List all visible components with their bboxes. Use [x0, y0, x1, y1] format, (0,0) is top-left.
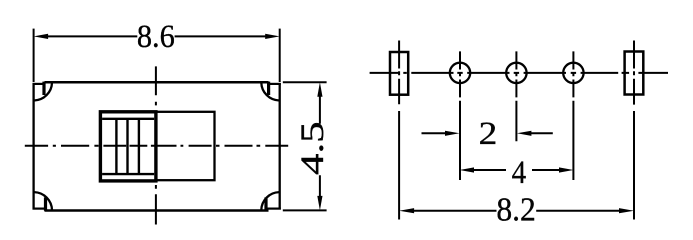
right pad rectangle	[625, 52, 644, 95]
corner arc top-right	[261, 83, 279, 101]
horizontal center line of right view	[370, 72, 668, 74]
body top-right corner step	[268, 83, 281, 85]
dim 2 left arrow line	[422, 132, 448, 134]
svg-text:2: 2	[479, 115, 498, 152]
body left edge	[32, 83, 34, 210]
svg-text:8.2: 8.2	[496, 191, 536, 228]
knob rib 3	[138, 119, 140, 174]
corner arc top-left	[34, 83, 52, 101]
body bottom-right corner step	[268, 208, 281, 210]
circle 3 center line	[572, 51, 574, 180]
dim 8.2 arrow right	[619, 208, 634, 213]
body top-left corner step	[33, 83, 45, 85]
dim 4.5 extension line top	[283, 81, 327, 83]
dim 8.6 extension line right	[279, 29, 281, 82]
knob inner bottom line	[102, 173, 154, 175]
svg-text:8.6: 8.6	[137, 18, 175, 54]
slot opening rectangle	[156, 112, 215, 180]
dim 4 dimension line	[472, 169, 561, 171]
body right edge	[279, 83, 281, 210]
terminal circle 3	[563, 63, 583, 83]
dim 8.2 extension line right	[633, 111, 635, 220]
dim 4.5 arrow top	[317, 82, 322, 97]
svg-text:4.5: 4.5	[295, 121, 331, 175]
body bottom edge	[45, 209, 269, 212]
corner arc bottom-right	[261, 192, 279, 210]
dim 4.5 dimension line	[319, 95, 321, 197]
dim 4 arrow left	[460, 167, 475, 172]
terminal circle 2	[506, 63, 526, 83]
dim 8.2 arrow left	[399, 208, 414, 213]
dim 8.2 dimension line	[412, 210, 622, 212]
knob rib 2	[126, 119, 128, 174]
corner arc bottom-left	[34, 192, 52, 210]
dim 8.6 arrow right	[265, 34, 280, 39]
dim 8.6 arrow left	[34, 34, 49, 39]
dim 8.6 dimension line	[47, 35, 267, 37]
knob inner top line	[102, 118, 154, 120]
body bottom-left corner step	[33, 208, 45, 210]
dim 8.2 extension line left	[398, 111, 400, 220]
corner tab bottom-left	[44, 197, 47, 210]
corner tab top-left	[42, 82, 45, 95]
dim 2 right arrow head	[517, 131, 532, 136]
dim 4.5 arrow bottom	[317, 196, 322, 211]
left pad rectangle	[390, 52, 408, 95]
circle 2 center line	[515, 51, 517, 141]
dim 2 left arrow head	[445, 131, 460, 136]
dim 4.5 extension line bottom	[283, 209, 327, 211]
dim 4 arrow right	[559, 167, 574, 172]
body top edge	[45, 81, 269, 84]
corner tab bottom-right	[264, 197, 267, 210]
knob outer rectangle	[100, 112, 155, 181]
terminal circle 1	[450, 63, 470, 83]
vertical center line of left view	[155, 66, 157, 224]
right pad vertical center line	[633, 41, 635, 105]
horizontal center line of left view	[25, 145, 288, 147]
dim 2 right arrow line	[530, 132, 553, 134]
svg-text:4: 4	[512, 153, 527, 190]
circle 1 center line	[459, 51, 461, 180]
knob rib 1	[115, 119, 117, 174]
left pad vertical center line	[398, 41, 400, 105]
dim 8.6 extension line left	[33, 29, 35, 82]
corner tab top-right	[267, 82, 270, 95]
